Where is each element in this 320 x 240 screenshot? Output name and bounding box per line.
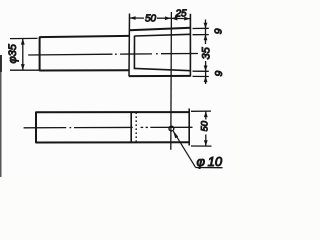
dim 50 (bottom right): bottom extension line [191,145,212,147]
right dims: fork-bottom extension line [193,75,209,77]
dim 50 (top): dimension line right segment [157,17,171,19]
top view: slot bottom edge [135,68,191,70]
bottom view: shoulder line [130,112,132,142]
dim phi35: dimension line [22,39,24,70]
leader underline [196,167,223,169]
top view: fork outer bottom edge [129,75,191,77]
dim 50 (bottom right): arrow up [204,111,208,117]
top view: centerline [28,54,198,56]
top view: fork outer top edge [129,28,190,31]
top view: shank bar left edge [39,37,41,71]
page edge dark head [0,55,2,72]
dim phi35: arrow up [21,38,25,44]
dim 50 (bottom right): arrow down [204,140,208,146]
right dims: arrow up at fork bottom [204,76,208,82]
right dims: dimension line upper segment [205,20,207,45]
dim 25 (top): arrow left [171,16,177,20]
right dims: fork-top extension line [193,27,209,29]
svg-text:25: 25 [175,9,188,20]
dim phi35: bottom extension line [10,69,39,71]
dim 25 (top): arrow right [184,17,190,21]
right dims: arrow down at slot bottom [204,66,208,72]
bottom view: centerline [24,126,193,129]
right dims: slot-bottom extension line [193,70,209,72]
top view: slot top edge [135,34,191,36]
dim 50 (bottom right): dimension line lower segment [205,135,207,147]
svg-text:50: 50 [200,120,211,131]
svg-text:9: 9 [213,28,225,34]
dim 50 (bottom right): dimension line upper segment [205,111,207,119]
bottom view: bar right edge (overshooting) [188,109,190,146]
svg-text:9: 9 [213,71,225,77]
bottom view: bar left edge [35,112,37,143]
top view: slot root face [133,36,135,70]
dim 50 (top): arrow left [129,16,135,20]
page edge [0,55,2,177]
dim phi35: arrow down [21,64,25,70]
hole axis line (both views) [170,12,173,150]
right dims: arrow up at slot top [204,35,208,41]
bottom view: bar top edge [36,111,190,113]
right dims: arrow down at fork top [204,23,208,29]
top view: shank bar top edge [39,36,129,37]
right dims: dimension line lower segment [205,61,207,84]
dim 50 (bottom right): top extension line [191,110,211,112]
top view: fork shoulder face + 50-dim extension line [128,14,131,77]
svg-text:35: 35 [201,46,213,59]
top view: shank bar bottom edge [39,69,129,71]
bottom view: hole circle [169,126,174,131]
top view: fork right end face + 25-dim extension line [189,14,191,77]
bottom view: bar bottom edge [36,141,190,143]
leader line for phi10 [173,131,195,167]
svg-text:50: 50 [145,14,157,25]
svg-text:φ 10: φ 10 [197,154,223,169]
svg-text:φ35: φ35 [7,43,19,63]
dim phi35: top extension line [10,37,38,39]
dim 25 (top): dimension line [171,17,190,19]
right dims: slot-top extension line [193,34,209,36]
dim 50 (top): dimension line left segment [130,17,145,19]
bottom view: hidden transition line (dotted) [135,112,137,142]
dim 50 (top): arrow right [165,16,171,20]
leader arrowhead [173,130,178,138]
